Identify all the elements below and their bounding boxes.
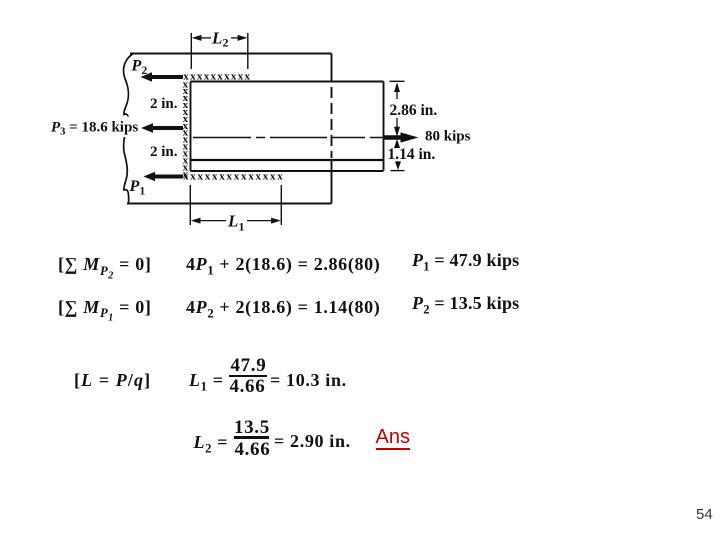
label L1 xyxy=(227,212,245,234)
equation row 1: moment about P2 xyxy=(58,255,152,281)
dimension L1 extension lines xyxy=(190,185,281,225)
bar right edge xyxy=(383,82,385,171)
svg-text:80 kips: 80 kips xyxy=(425,129,471,145)
svg-text:P: P xyxy=(131,58,142,75)
svg-text:1: 1 xyxy=(140,186,146,198)
dimension 1.14 bottom tick xyxy=(391,170,405,172)
dimension 1.14 lower arrow xyxy=(395,161,401,170)
svg-text:2 in.: 2 in. xyxy=(150,144,178,160)
svg-text:1.14 in.: 1.14 in. xyxy=(388,146,436,163)
weld row top (x marks) xyxy=(183,71,251,83)
dimension 2.86 top tick xyxy=(390,80,405,82)
dimension 2.86 lower arrow xyxy=(394,118,400,137)
svg-text:L: L xyxy=(211,29,222,48)
answer label xyxy=(376,427,410,450)
label 2 in. upper xyxy=(150,96,178,112)
equation row 2: moment about P1 xyxy=(58,298,152,324)
label 80 kips xyxy=(425,129,471,145)
label P1 xyxy=(129,178,146,198)
svg-text:x: x xyxy=(183,168,189,180)
svg-text:L: L xyxy=(227,212,238,231)
svg-text:2: 2 xyxy=(142,65,148,77)
svg-text:1: 1 xyxy=(239,220,245,234)
bar bottom edge xyxy=(191,170,384,172)
svg-text:xxxxxxxxxx: xxxxxxxxxx xyxy=(183,71,251,83)
plate bottom edge xyxy=(127,203,332,205)
dimension L2 line and arrows xyxy=(192,35,248,41)
plate right edge hidden behind bar (dashed) xyxy=(331,87,333,158)
svg-text:2: 2 xyxy=(223,36,229,50)
svg-text:2 in.: 2 in. xyxy=(150,96,178,112)
label 1.14 in. xyxy=(388,146,436,163)
plate wavy break left edge xyxy=(124,54,133,204)
svg-text:2.86 in.: 2.86 in. xyxy=(390,102,438,119)
page number xyxy=(696,506,713,523)
equation row 3: L = P/q and L1 xyxy=(74,371,151,389)
label L2 xyxy=(211,29,229,50)
bar left edge xyxy=(190,82,192,172)
label 2.86 in. xyxy=(390,102,438,119)
dimension L2 extension lines xyxy=(191,33,248,69)
force arrow P2 xyxy=(141,72,184,81)
equation row 4: L2 result xyxy=(194,433,229,455)
svg-text:P: P xyxy=(129,178,140,195)
force arrow P3 xyxy=(141,123,183,132)
bar top edge xyxy=(191,81,384,83)
force arrow 80 kips xyxy=(384,132,419,142)
plate top edge xyxy=(130,53,332,55)
dimension 2.86 upper arrow xyxy=(394,82,400,99)
label 2 in. lower xyxy=(150,144,178,160)
dimension L1 line and arrows xyxy=(191,218,281,224)
weld column left (x marks) xyxy=(183,78,189,180)
label P3 = 18.6 kips xyxy=(49,117,138,138)
bar centerline xyxy=(193,137,384,139)
force arrow P1 xyxy=(144,172,184,181)
label P2 xyxy=(131,58,148,78)
plate right edge (solid below bar) xyxy=(331,160,333,204)
figure: scanned weld-connection diagram xyxy=(0,0,520,245)
svg-text:xxxxxxxxxxxxxx: xxxxxxxxxxxxxx xyxy=(183,171,285,183)
dimension 1.14 upper arrow xyxy=(394,139,400,148)
bar lower weld edge line xyxy=(191,159,384,161)
plate right edge (solid above bar) xyxy=(331,54,333,82)
weld row bottom (x marks) xyxy=(183,171,285,183)
